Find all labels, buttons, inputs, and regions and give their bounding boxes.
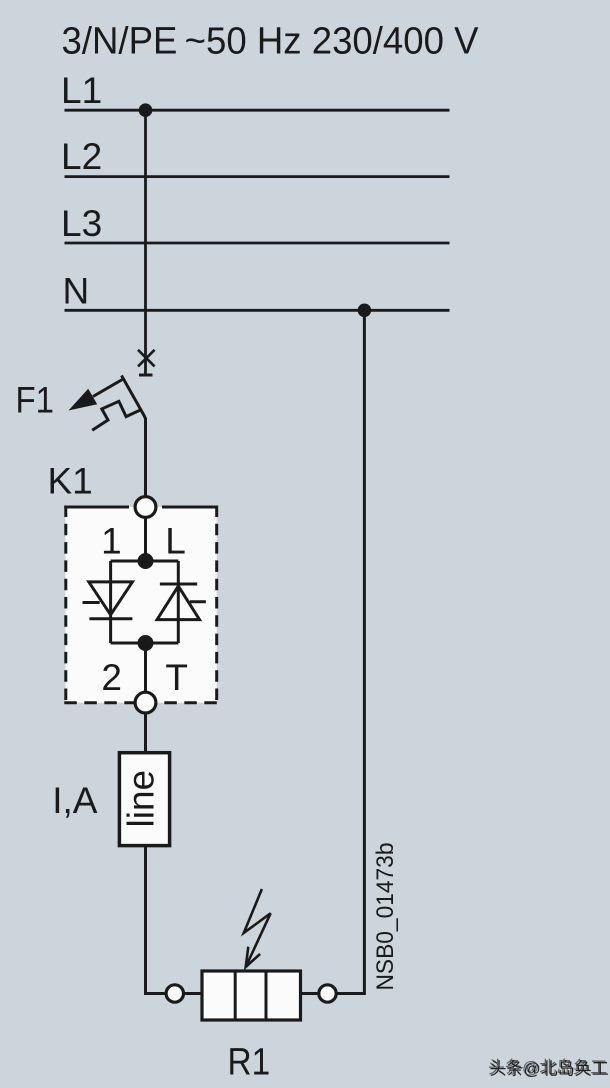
svg-text:1: 1 xyxy=(101,521,122,562)
svg-text:3/N/PE ~50 Hz 230/400 V: 3/N/PE ~50 Hz 230/400 V xyxy=(62,20,480,62)
svg-text:T: T xyxy=(165,657,188,698)
svg-text:头条@北岛奂工: 头条@北岛奂工 xyxy=(488,1058,607,1077)
svg-text:L2: L2 xyxy=(61,136,102,177)
svg-text:L: L xyxy=(165,521,186,562)
svg-text:NSB0_01473b: NSB0_01473b xyxy=(372,843,399,991)
svg-text:N: N xyxy=(63,270,90,311)
svg-text:R1: R1 xyxy=(228,1041,271,1083)
svg-text:L3: L3 xyxy=(61,203,102,244)
svg-text:2: 2 xyxy=(101,657,122,698)
svg-text:K1: K1 xyxy=(48,460,93,501)
svg-text:line: line xyxy=(120,770,161,828)
svg-text:L1: L1 xyxy=(61,70,102,111)
svg-text:F1: F1 xyxy=(16,379,55,420)
svg-text:I,A: I,A xyxy=(52,780,98,821)
